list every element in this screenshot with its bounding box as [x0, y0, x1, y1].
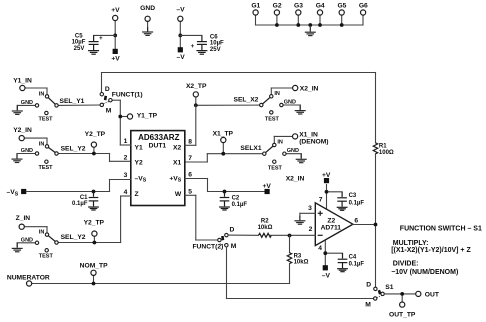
svg-text:C1: C1: [80, 195, 88, 201]
svg-text:+: +: [191, 44, 195, 50]
switch SEL_Y2 (Z input row): [16, 215, 121, 260]
svg-text:DUT1: DUT1: [149, 142, 167, 149]
switch FUNCT(1): [100, 86, 143, 145]
svg-text:10µF: 10µF: [72, 40, 86, 46]
svg-text:3: 3: [124, 172, 128, 179]
svg-text:Z_IN: Z_IN: [16, 215, 31, 222]
svg-text:25V: 25V: [210, 47, 221, 53]
svg-text:[(X1-X2)(Y1-Y2)/10V] + Z: [(X1-X2)(Y1-Y2)/10V] + Z: [391, 247, 471, 254]
square terminal +V (bottom of header): [111, 49, 120, 63]
svg-text:Y2_TP: Y2_TP: [84, 220, 105, 227]
switch FUNCT(2): [192, 226, 236, 250]
svg-text:GND: GND: [21, 237, 33, 243]
pin 6: [185, 172, 208, 192]
svg-text:4: 4: [124, 189, 128, 196]
terminal G5: [337, 2, 346, 27]
terminal OUT: [384, 291, 439, 298]
ground bus G1-G6: [256, 15, 364, 25]
svg-text:0.1µF: 0.1µF: [232, 202, 248, 208]
IC U1 AD633ARZ: [131, 131, 185, 206]
svg-text:R1: R1: [379, 143, 387, 149]
svg-text:6: 6: [188, 172, 192, 179]
svg-text:SELX1: SELX1: [240, 145, 261, 152]
svg-text:TEST: TEST: [265, 117, 280, 123]
svg-text:7: 7: [319, 197, 323, 204]
svg-text:NUMERATOR: NUMERATOR: [7, 274, 50, 281]
svg-text:Z2: Z2: [327, 218, 335, 225]
svg-text:X1: X1: [173, 160, 181, 167]
wire top rail (D of FUNCT1 to R1): [102, 73, 376, 143]
svg-text:1: 1: [124, 138, 128, 145]
svg-text:Y1_IN: Y1_IN: [13, 77, 32, 84]
terminal G1: [251, 2, 260, 15]
capacitor C5: [72, 33, 116, 54]
svg-text:SEL_X2: SEL_X2: [233, 97, 258, 104]
svg-text:AD633ARZ: AD633ARZ: [138, 133, 179, 142]
svg-text:+V: +V: [111, 56, 120, 63]
svg-text:Y1_TP: Y1_TP: [137, 113, 158, 120]
test point X2_TP: [186, 83, 207, 107]
terminal NUMERATOR: [7, 274, 290, 286]
test point Y2_TP (Z row): [84, 220, 105, 245]
power terminal GND (top): [140, 5, 155, 35]
svg-text:3: 3: [308, 205, 312, 212]
svg-text:FUNCT(2): FUNCT(2): [192, 244, 223, 251]
svg-text:Y1: Y1: [135, 144, 143, 151]
svg-text:–VS: –VS: [135, 175, 147, 183]
svg-text:Y2: Y2: [135, 160, 143, 167]
svg-text:IN: IN: [39, 141, 45, 147]
svg-text:8: 8: [188, 139, 192, 146]
svg-text:G4: G4: [316, 2, 325, 9]
svg-text:FUNCTION SWITCH – S1: FUNCTION SWITCH – S1: [400, 225, 482, 232]
pin 4: [121, 189, 131, 243]
square terminal -VS: [7, 189, 27, 198]
ground (Z row): [12, 243, 23, 252]
svg-text:0.1µF: 0.1µF: [72, 201, 88, 207]
svg-text:X2: X2: [173, 144, 181, 151]
resistor R2: [228, 218, 315, 237]
svg-text:TEST: TEST: [39, 254, 54, 260]
svg-text:G3: G3: [294, 2, 303, 9]
svg-text:GND: GND: [21, 100, 33, 106]
svg-text:10kΩ: 10kΩ: [258, 225, 273, 231]
pin 1: [120, 138, 131, 145]
square terminal +V (op-amp pin 7): [322, 172, 331, 183]
svg-text:G6: G6: [359, 2, 368, 9]
svg-text:OUT_TP: OUT_TP: [389, 311, 416, 318]
svg-text:SEL_Y1: SEL_Y1: [60, 98, 85, 105]
wire to pin 7: [185, 154, 208, 162]
resistor R1: [373, 143, 394, 156]
svg-text:C5: C5: [75, 33, 83, 39]
svg-text:2: 2: [124, 155, 128, 162]
svg-text:SEL_Y2: SEL_Y2: [61, 234, 86, 241]
svg-text:NOM_TP: NOM_TP: [80, 263, 108, 270]
pin 8: [185, 139, 196, 146]
wire op-amp pin 3 to ground: [294, 213, 315, 224]
terminal G2: [273, 2, 282, 27]
svg-text:D: D: [105, 86, 110, 93]
svg-text:G5: G5: [337, 2, 346, 9]
svg-text:(DENOM): (DENOM): [299, 138, 328, 145]
svg-text:100Ω: 100Ω: [379, 150, 394, 156]
svg-text:W: W: [175, 191, 182, 198]
capacitor C6: [180, 34, 224, 54]
capacitor C4: [323, 251, 364, 271]
switch SEL_X2: [196, 85, 319, 122]
wire +VS row: [208, 191, 265, 193]
wire to pin 2: [110, 154, 131, 162]
test point OUT_TP: [389, 292, 416, 318]
svg-text:M: M: [231, 243, 237, 250]
test point X1_TP: [213, 131, 234, 156]
svg-text:–V: –V: [177, 54, 186, 61]
svg-text:GND: GND: [287, 148, 299, 154]
terminal G6: [359, 2, 368, 15]
svg-text:R3: R3: [294, 253, 302, 259]
svg-text:X1_TP: X1_TP: [213, 131, 234, 138]
svg-text:Y2_TP: Y2_TP: [85, 131, 106, 138]
op-amp Z2 AD711: [308, 185, 358, 266]
svg-text:GND: GND: [284, 99, 296, 105]
capacitor C2: [219, 190, 247, 210]
ground (SEL_X2): [295, 105, 306, 114]
svg-text:6: 6: [354, 217, 358, 224]
svg-text:C2: C2: [232, 196, 240, 202]
svg-text:+VS: +VS: [169, 175, 181, 183]
svg-text:X2_IN: X2_IN: [286, 176, 305, 183]
wire right rail (R1 to out node to S1): [375, 154, 377, 287]
switch SEL_Y1: [13, 77, 100, 122]
svg-text:M: M: [365, 301, 371, 308]
svg-text:5: 5: [188, 189, 192, 196]
note function switch text: [391, 225, 482, 276]
svg-text:TEST: TEST: [38, 116, 53, 122]
svg-text:−10V (NUM/DENOM): −10V (NUM/DENOM): [391, 269, 458, 276]
svg-text:G2: G2: [273, 2, 282, 9]
svg-text:25V: 25V: [74, 46, 85, 52]
ground (bus): [305, 23, 316, 35]
terminal G3: [294, 2, 303, 27]
svg-text:M: M: [106, 108, 112, 115]
svg-text:2: 2: [309, 226, 313, 233]
svg-text:–V: –V: [322, 272, 331, 279]
wire -VS rail: [26, 191, 109, 193]
svg-text:G1: G1: [251, 2, 260, 9]
svg-text:IN: IN: [274, 91, 280, 97]
svg-text:TEST: TEST: [38, 165, 53, 171]
square terminal +V (pin6): [263, 183, 272, 194]
svg-text:DIVIDE:: DIVIDE:: [393, 260, 419, 267]
svg-text:Y2_IN: Y2_IN: [13, 127, 32, 134]
wire X2_TP to pin 8: [195, 105, 197, 145]
resistor R3: [287, 234, 308, 284]
pin 3: [110, 172, 131, 191]
svg-text:IN: IN: [39, 230, 45, 236]
svg-text:C3: C3: [349, 193, 357, 199]
test point Y2_TP: [85, 131, 106, 156]
svg-text:10µF: 10µF: [210, 41, 224, 47]
capacitor C1: [72, 190, 99, 210]
svg-text:AD711: AD711: [321, 225, 342, 232]
svg-text:R2: R2: [261, 218, 269, 224]
square terminal -V (op-amp pin 4): [322, 265, 331, 279]
svg-text:+: +: [99, 36, 103, 42]
svg-text:GND: GND: [21, 148, 33, 154]
svg-text:FUNCT(1): FUNCT(1): [112, 91, 143, 98]
switch SEL_Y2: [13, 127, 109, 171]
svg-text:+V: +V: [322, 172, 331, 179]
svg-text:MULTIPLY:: MULTIPLY:: [393, 240, 429, 247]
svg-text:S1: S1: [385, 284, 393, 291]
svg-text:Z: Z: [135, 191, 139, 198]
svg-text:+V: +V: [111, 7, 120, 14]
svg-text:–VS: –VS: [7, 189, 19, 197]
svg-text:–V: –V: [176, 7, 185, 14]
svg-text:4: 4: [318, 245, 322, 252]
square terminal -V: [177, 47, 186, 61]
svg-text:C6: C6: [210, 34, 218, 40]
switch S1: [365, 282, 393, 309]
svg-text:TEST: TEST: [268, 165, 283, 171]
ground (SEL_Y1): [12, 106, 23, 115]
power terminal +V (top): [111, 7, 120, 49]
svg-text:IN: IN: [39, 91, 45, 97]
test point Y1_TP: [118, 113, 157, 120]
switch SELX1: [207, 131, 328, 171]
svg-text:0.1µF: 0.1µF: [349, 201, 365, 207]
svg-text:7: 7: [188, 155, 192, 162]
svg-text:OUT: OUT: [425, 291, 440, 298]
ground (SELX1): [296, 154, 307, 163]
svg-text:X2_TP: X2_TP: [186, 83, 207, 90]
terminal G4: [316, 2, 325, 27]
svg-text:D: D: [230, 226, 235, 233]
svg-text:X2_IN: X2_IN: [300, 85, 319, 92]
test point NOM_TP: [80, 263, 108, 286]
capacitor C3: [325, 190, 365, 210]
svg-text:GND: GND: [140, 5, 155, 12]
svg-text:10kΩ: 10kΩ: [294, 260, 309, 266]
pin 5: [185, 189, 196, 241]
svg-text:C4: C4: [349, 255, 357, 261]
svg-text:0.1µF: 0.1µF: [349, 262, 365, 268]
svg-text:+V: +V: [263, 183, 272, 190]
svg-text:D: D: [366, 282, 371, 289]
wire op-amp output: [353, 223, 378, 227]
wire FUNCT(2) M to S1 M: [227, 247, 374, 299]
svg-text:SEL_Y2: SEL_Y2: [61, 145, 86, 152]
svg-text:IN: IN: [277, 140, 283, 146]
power terminal -V (top): [176, 7, 185, 48]
ground (SEL_Y2): [12, 154, 23, 163]
